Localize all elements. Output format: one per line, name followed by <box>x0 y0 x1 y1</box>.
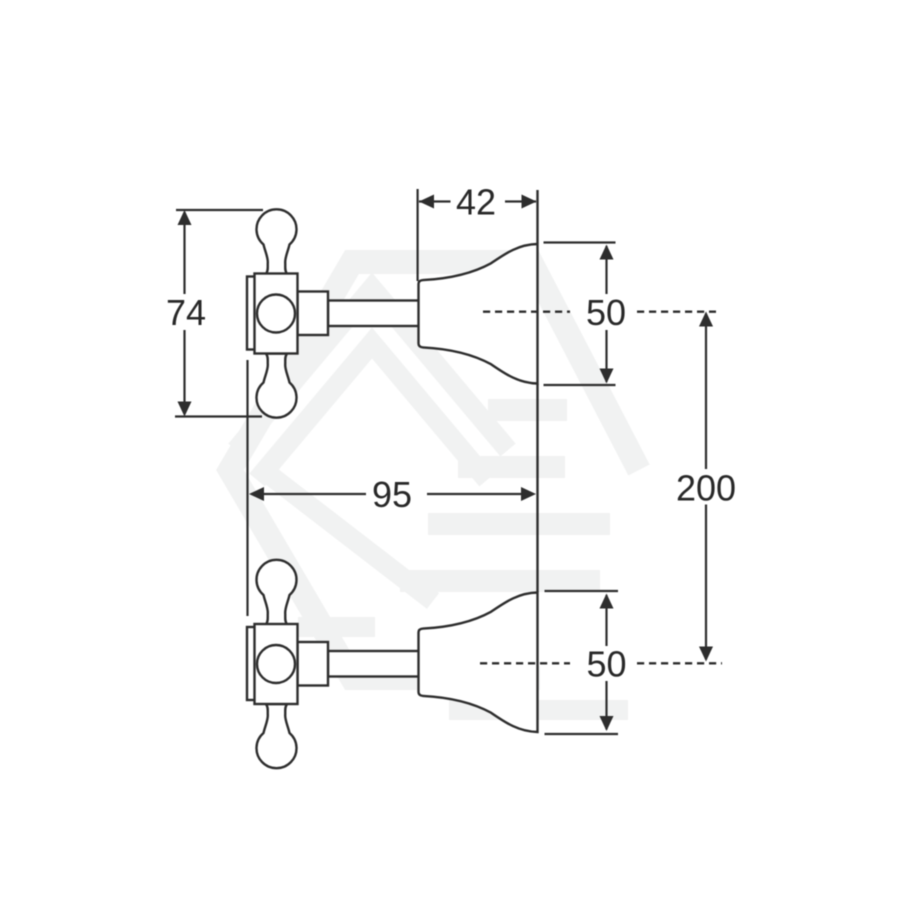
arrowhead 200 down <box>699 647 713 662</box>
dimension 74 line upper <box>183 212 185 294</box>
bottom lobe bottom tap <box>257 704 297 768</box>
bottom lobe top tap <box>257 354 297 418</box>
top lobe top tap <box>257 209 297 274</box>
arrowhead 50 bottom down <box>600 716 614 731</box>
centreline top right part <box>637 311 716 313</box>
svg-text:50: 50 <box>586 292 626 333</box>
svg-text:74: 74 <box>166 292 206 333</box>
arrowhead 42 right <box>522 195 537 209</box>
dimension 50 top tick lower <box>544 384 616 386</box>
dimension 50 bottom line upper <box>605 595 607 646</box>
dimension 74 line lower <box>183 330 185 414</box>
dimension 200 line upper <box>705 314 707 470</box>
adapter top <box>298 292 329 336</box>
dimension 42 line right <box>505 200 536 202</box>
body bottom <box>255 624 298 704</box>
bottom tap group <box>247 560 538 768</box>
stem bottom <box>328 651 419 677</box>
arrowhead 74 down <box>178 402 192 417</box>
watermark logo <box>230 262 639 710</box>
dimension 50 bottom tick upper <box>545 590 619 592</box>
svg-text:200: 200 <box>676 468 736 509</box>
dimension 42 extension line <box>417 189 419 281</box>
dimension 50 top line lower <box>605 330 607 382</box>
dimension 50 top tick upper <box>544 241 616 243</box>
flange bottom <box>419 593 538 733</box>
top tap group <box>247 209 538 417</box>
arrowhead 50 top down <box>600 369 614 384</box>
arrowhead 42 left <box>419 195 434 209</box>
svg-text:95: 95 <box>372 474 412 515</box>
plate bottom <box>247 627 255 700</box>
dimension 95 line right <box>427 493 522 495</box>
svg-text:42: 42 <box>456 182 496 223</box>
arrowhead 200 up <box>699 312 713 327</box>
dimension 74 tick bottom <box>175 415 262 417</box>
wall line middle segment <box>536 384 538 592</box>
dimension 200 line lower <box>705 505 707 660</box>
arrowhead 95 left <box>249 487 264 501</box>
dimension 74 tick top <box>176 209 263 211</box>
wall line upper segment <box>536 190 538 243</box>
adapter bottom <box>298 642 329 686</box>
plate top <box>247 277 255 350</box>
arrowhead 50 top up <box>600 245 614 260</box>
top lobe bottom tap <box>257 560 297 625</box>
centreline top left part <box>483 311 570 313</box>
arrowhead 74 up <box>178 210 192 225</box>
dimension 50 bottom tick lower <box>545 733 619 735</box>
arrowhead 50 bottom up <box>600 594 614 609</box>
arrowhead 95 right <box>521 487 536 501</box>
flange top <box>419 244 538 384</box>
dimension 50 top line upper <box>605 246 607 294</box>
dimension 42 line left <box>419 200 451 202</box>
stem top <box>328 301 419 327</box>
body top <box>255 274 298 354</box>
centreline bottom right part <box>637 662 722 664</box>
dimension 95 extension line <box>246 360 248 616</box>
dimension 50 bottom line lower <box>605 681 607 730</box>
knob circle top <box>257 295 295 333</box>
knob circle bottom <box>257 645 295 683</box>
centreline bottom left part <box>480 662 570 664</box>
svg-text:50: 50 <box>586 644 626 685</box>
dimension 95 line left <box>263 493 366 495</box>
